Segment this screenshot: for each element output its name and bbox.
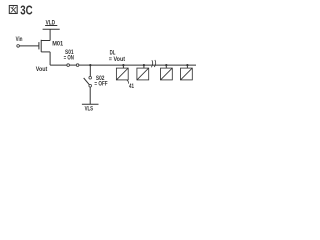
transistor M01 (39, 40, 50, 52)
svg-text:= OFF: = OFF (94, 82, 107, 88)
junction dot at cell 4 (186, 64, 188, 66)
stub wire to cell 2 (143, 65, 145, 68)
junction dot node A (89, 64, 91, 66)
svg-text:3C: 3C (20, 3, 32, 18)
stub wire to cell 3 (165, 65, 167, 68)
switch S02 (open) (84, 76, 92, 87)
wire node A to data line DL end (90, 64, 196, 66)
photodiode cell 3 (161, 68, 173, 80)
power rail VLD bar (43, 28, 60, 30)
svg-text:Vin: Vin (16, 37, 23, 43)
switch S01 (closed) (67, 64, 79, 67)
wire S01 to node A (79, 64, 90, 66)
wire Vin to M01 gate (20, 45, 39, 47)
line break mark on DL (151, 60, 155, 67)
wire Vout corner to switch S01 (50, 64, 67, 66)
junction dot at cell 3 (165, 64, 167, 66)
leader line for label 41 (127, 80, 129, 83)
wire VLD rail to M01 drain (49, 29, 51, 40)
figure title 図3C (9, 3, 32, 18)
junction dot at cell 2 (143, 64, 145, 66)
underline of VLD label (45, 25, 57, 27)
svg-text:M01: M01 (52, 41, 64, 47)
wire S02 to VLS rail (89, 87, 91, 104)
wire node A down to switch S02 (89, 65, 91, 76)
stub wire to cell 4 (186, 65, 188, 68)
svg-text:VLS: VLS (85, 107, 94, 113)
photodiode cell 41 (116, 68, 128, 80)
photodiode cell 4 (181, 68, 193, 80)
power rail VLS bar (82, 103, 99, 105)
stub wire to cell 41 (122, 65, 124, 68)
svg-text:DL: DL (110, 51, 116, 57)
input terminal Vin circle (17, 45, 20, 48)
photodiode cell 2 (137, 68, 149, 80)
wire M01 source down to Vout corner (49, 52, 51, 65)
svg-text:= Vout: = Vout (109, 57, 125, 63)
svg-text:Vout: Vout (36, 67, 48, 73)
svg-text:41: 41 (129, 84, 134, 90)
svg-text:= ON: = ON (64, 56, 74, 62)
junction dot at cell 41 (122, 64, 124, 66)
